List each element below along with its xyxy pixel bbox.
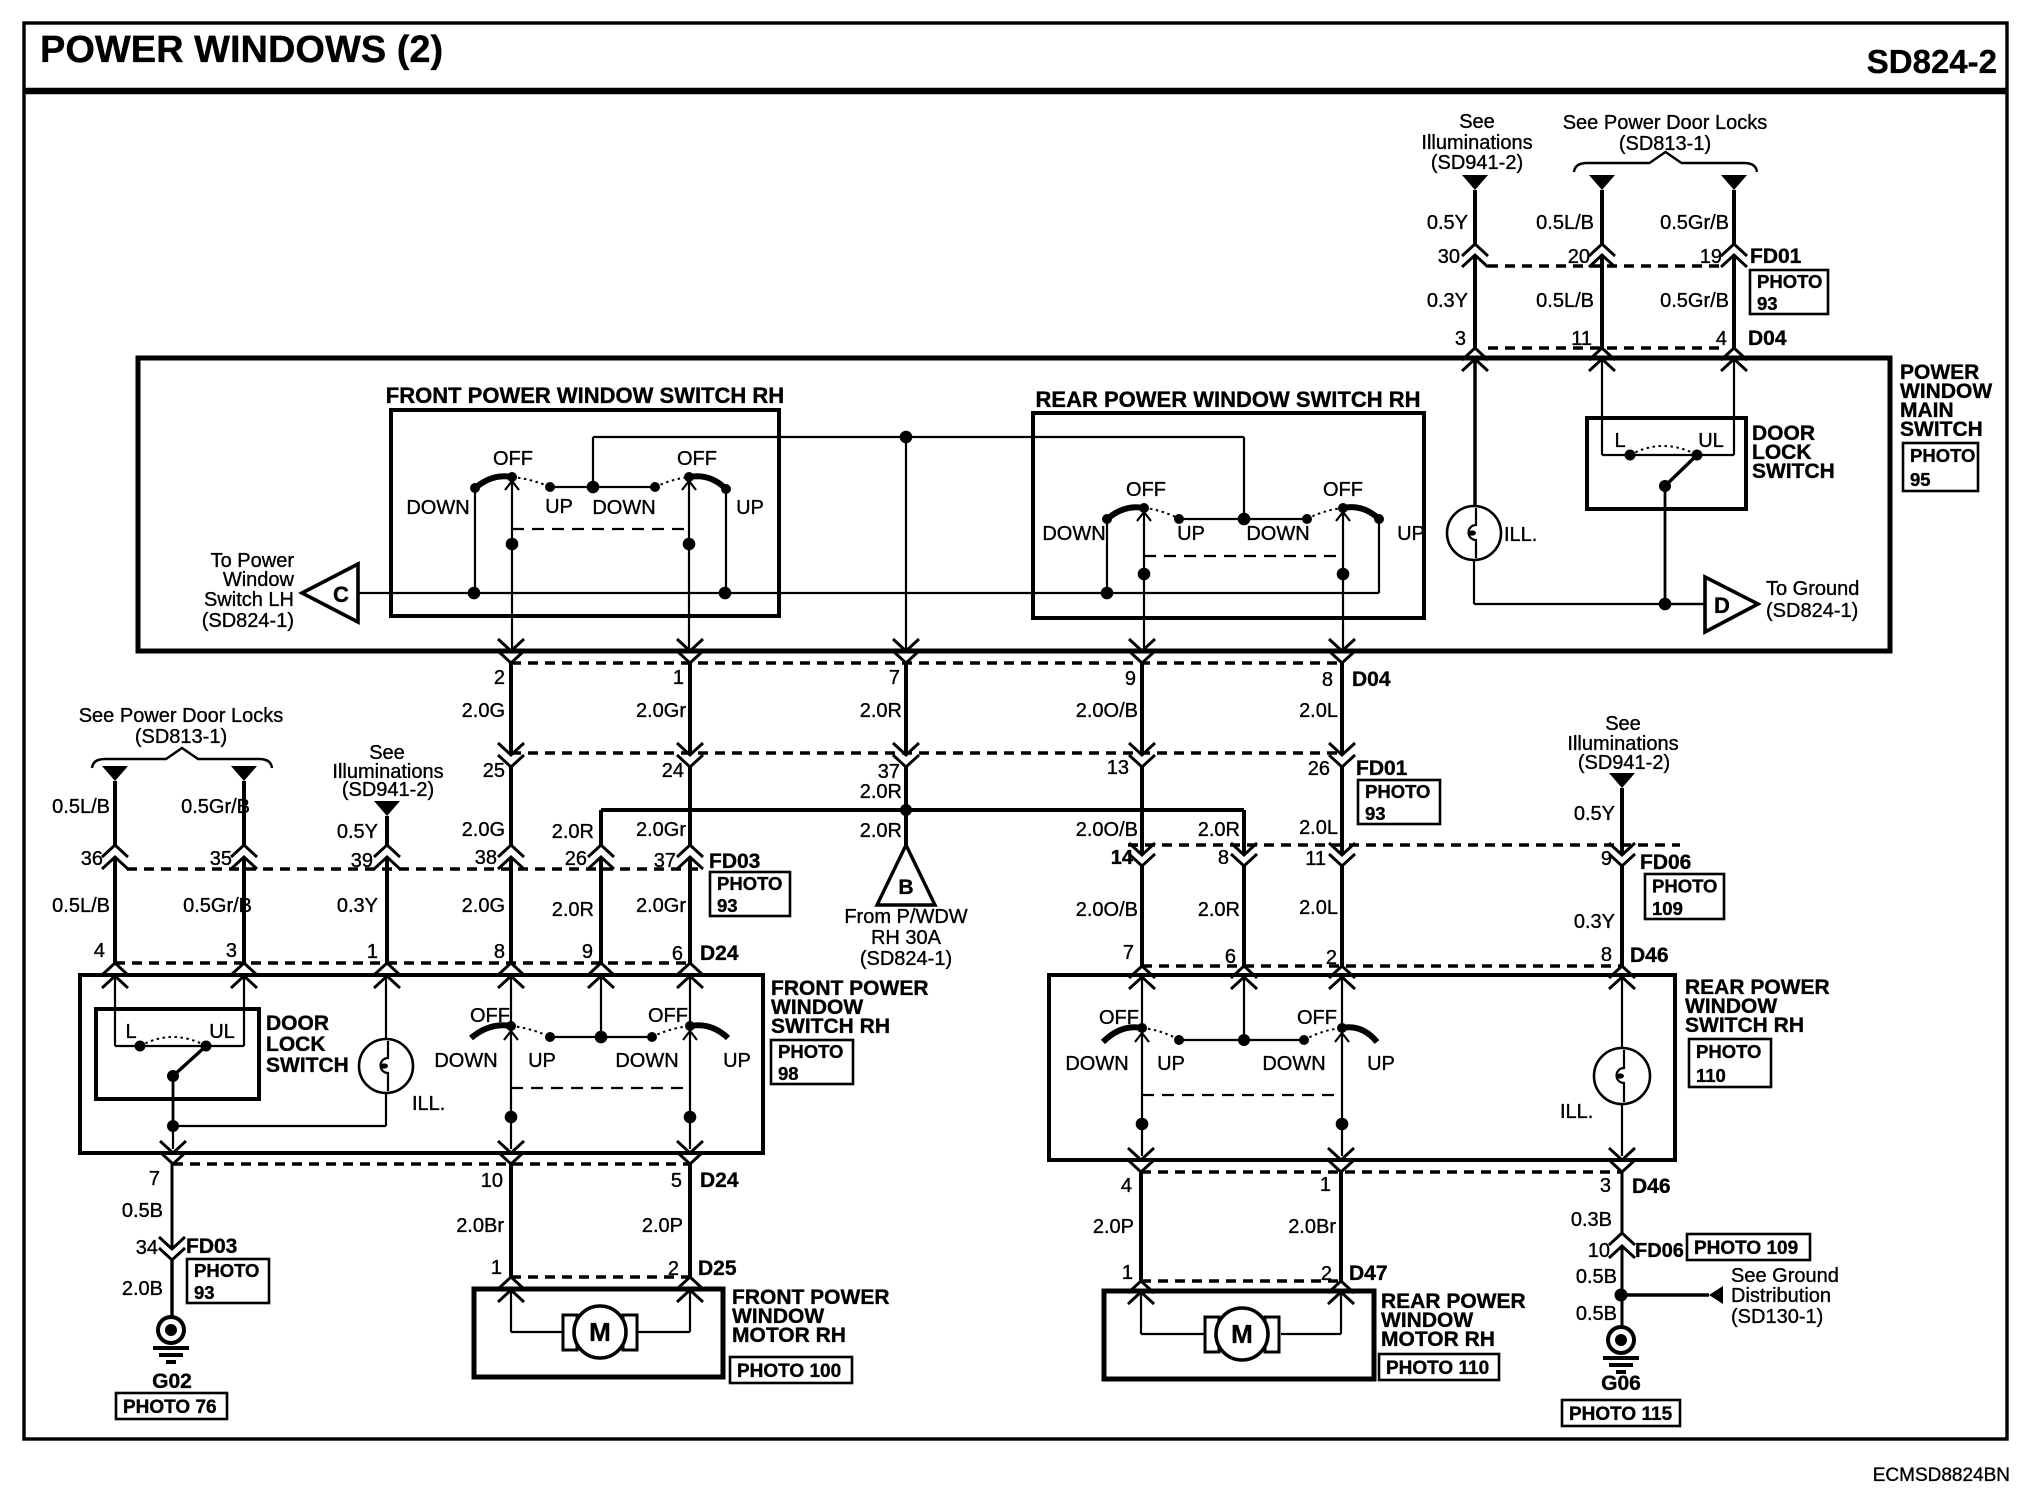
svg-text:10: 10 — [1588, 1240, 1610, 1262]
front switch UP contact 2 — [721, 484, 731, 494]
svg-text:5: 5 — [671, 1170, 682, 1192]
svg-text:D24: D24 — [700, 942, 739, 965]
connector D24 pin 10 (exit) — [481, 1141, 524, 1192]
svg-text:See: See — [1459, 111, 1495, 133]
wire 2.0O/B seg1 — [1140, 663, 1144, 755]
door lock common dot (main) — [1659, 480, 1671, 492]
svg-text:UP: UP — [1177, 523, 1205, 545]
wire 2.0G seg2 — [509, 767, 513, 845]
svg-text:11: 11 — [1305, 848, 1326, 870]
wire 2.0R seg1 — [904, 663, 908, 755]
svg-text:SWITCH: SWITCH — [1900, 418, 1983, 441]
svg-text:PHOTO: PHOTO — [1652, 875, 1717, 896]
wire 2.0L seg1 — [1340, 663, 1344, 755]
door lock UL contact (main) — [1692, 450, 1703, 461]
svg-text:DOWN: DOWN — [615, 1050, 678, 1072]
connector D46 pin 8 — [1601, 944, 1635, 989]
svg-text:SWITCH: SWITCH — [1752, 460, 1835, 483]
label FD01 (top) — [1750, 245, 1802, 268]
svg-text:L: L — [1614, 430, 1625, 452]
svg-text:(SD130-1): (SD130-1) — [1731, 1306, 1823, 1328]
connector D24 pin 5 (exit) — [671, 1141, 703, 1192]
label 0.3Y r3 — [337, 895, 378, 917]
label D47 — [1349, 1262, 1388, 1285]
svg-text:To Ground: To Ground — [1766, 578, 1859, 600]
rear-door switch OFF point 1 — [1137, 1023, 1147, 1033]
connector FD03 pin 36 — [81, 845, 128, 870]
connector FD06 pin 10 — [1588, 1233, 1635, 1262]
wire 2.0L seg2 — [1340, 767, 1344, 855]
rear-door dotted travel 2 — [1304, 1028, 1342, 1040]
rear-door UP contact 1 — [1174, 1035, 1184, 1045]
svg-text:13: 13 — [1107, 757, 1129, 779]
svg-text:(SD941-2): (SD941-2) — [342, 779, 434, 801]
box REAR POWER WINDOW MOTOR RH — [1104, 1291, 1374, 1379]
connector D04 pin 9 — [1125, 639, 1155, 690]
junction dot rdoor linkage 2 — [1336, 1118, 1349, 1131]
connector D04 pin 4 — [1716, 328, 1747, 371]
connector FD06 pin 8 — [1218, 843, 1257, 869]
door lock lever (door) — [173, 1046, 206, 1076]
wire 0.5B right lower — [1621, 1295, 1624, 1327]
svg-text:LOCK: LOCK — [266, 1033, 326, 1056]
connector FD03 pin 37 — [654, 845, 703, 872]
svg-text:D25: D25 — [698, 1257, 737, 1280]
label DOWN door1 — [434, 1050, 497, 1072]
box FRONT POWER WINDOW SWITCH RH (door) — [80, 975, 763, 1153]
label REAR POWER WINDOW SWITCH RH (main) — [1036, 387, 1421, 412]
front-door DOWN contact 2 — [647, 1032, 657, 1042]
label 0.5L/B (2) — [1536, 290, 1594, 312]
connector D47 dashed link — [1141, 1279, 1341, 1282]
svg-text:D04: D04 — [1352, 668, 1391, 691]
svg-text:14: 14 — [1111, 847, 1134, 869]
wire 0.5L/B left seg2 — [113, 857, 117, 964]
label 0.5L/B left — [52, 796, 110, 818]
wire motor lead 1 (front) — [511, 1290, 564, 1332]
svg-text:110: 110 — [1696, 1065, 1726, 1086]
label REAR POWER WINDOW SWITCH RH (door) — [1685, 976, 1830, 1037]
label DOWN rdoor2 — [1262, 1053, 1325, 1075]
svg-text:M: M — [589, 1317, 611, 1347]
off-page connector B triangle (from P/WDW) — [877, 845, 935, 905]
wire pin11 to door lock L — [1601, 359, 1603, 455]
svg-text:(SD824-1): (SD824-1) — [860, 948, 952, 970]
svg-text:93: 93 — [1757, 293, 1778, 314]
svg-text:3: 3 — [226, 940, 237, 962]
svg-text:2.0G: 2.0G — [462, 819, 505, 841]
label DOOR LOCK SWITCH (door) — [266, 1012, 349, 1077]
svg-text:ILL.: ILL. — [412, 1093, 445, 1115]
svg-text:UP: UP — [528, 1050, 556, 1072]
label OFF rdoor2 — [1297, 1007, 1337, 1029]
wire rear OFF drop pin8 — [1336, 508, 1350, 651]
svg-text:26: 26 — [565, 848, 587, 870]
svg-text:From P/WDW: From P/WDW — [844, 906, 967, 928]
label UP 2 — [736, 497, 764, 519]
wire 0.5B — [171, 1164, 174, 1249]
svg-text:REAR POWER WINDOW SWITCH RH: REAR POWER WINDOW SWITCH RH — [1036, 387, 1421, 412]
svg-text:0.3Y: 0.3Y — [1427, 290, 1468, 312]
door lock UL contact (door) — [201, 1041, 212, 1052]
svg-text:FD03: FD03 — [186, 1235, 237, 1258]
svg-text:2.0O/B: 2.0O/B — [1076, 819, 1138, 841]
wire 2.0G through (door) — [504, 976, 518, 1149]
svg-text:2.0P: 2.0P — [642, 1215, 683, 1237]
svg-text:DOWN: DOWN — [1262, 1053, 1325, 1075]
connector D46 pin 2 — [1326, 947, 1355, 989]
svg-text:0.3Y: 0.3Y — [1574, 911, 1615, 933]
box POWER WINDOW MAIN SWITCH — [138, 358, 1890, 651]
front dotted travel DOWN-OFF 2 — [655, 477, 689, 487]
connector D24 pin 8 — [494, 941, 524, 988]
svg-text:PHOTO: PHOTO — [194, 1260, 259, 1281]
label OFF door2 — [648, 1005, 688, 1027]
svg-text:UP: UP — [736, 497, 764, 519]
svg-text:2.0R: 2.0R — [552, 821, 594, 843]
connector FD01 pin 26 — [1308, 743, 1355, 780]
wire 2.0Gr seg2 — [688, 767, 692, 845]
svg-text:UP: UP — [723, 1050, 751, 1072]
note See Illuminations (SD941-2) mid — [332, 742, 443, 801]
svg-text:2: 2 — [1321, 1263, 1332, 1285]
junction dot lamp-doorlock — [167, 1120, 179, 1132]
svg-text:PHOTO: PHOTO — [1696, 1041, 1761, 1062]
label UP rear 1 — [1177, 523, 1205, 545]
rear switch lever 1 (DOWN-OFF) — [1106, 507, 1144, 520]
svg-text:4: 4 — [94, 940, 105, 962]
rear-door lever 1 — [1103, 1027, 1142, 1042]
svg-text:2.0Br: 2.0Br — [456, 1215, 504, 1237]
svg-text:See Ground: See Ground — [1731, 1265, 1839, 1287]
svg-text:2.0R: 2.0R — [1198, 819, 1240, 841]
arrow power door locks left B — [231, 766, 257, 781]
svg-text:1: 1 — [367, 941, 378, 963]
label 0.5L/B r3 — [52, 895, 110, 917]
svg-text:DOWN: DOWN — [592, 497, 655, 519]
label 2.0R branch right — [1198, 819, 1240, 841]
connector D24 pin 1 — [367, 941, 400, 988]
label 2.0R r2 (col E) — [552, 821, 594, 843]
connector FD01 pin 19 — [1700, 244, 1747, 268]
label D04 (top) — [1748, 327, 1787, 350]
note See Illuminations (SD941-2) top — [1421, 111, 1532, 174]
label D24 (top) — [700, 942, 739, 965]
front switch UP contact 1 — [545, 482, 555, 492]
wire 2.0L seg3 — [1340, 866, 1344, 966]
rear switch DOWN contact 1 — [1102, 514, 1112, 524]
label 2.0R r1 — [860, 700, 902, 722]
front switch RH-window DOWN contact — [470, 483, 480, 493]
svg-text:26: 26 — [1308, 758, 1330, 780]
wire UP contact to bus — [725, 489, 727, 593]
label FD01 (mid) — [1356, 757, 1408, 780]
svg-text:0.5Gr/B: 0.5Gr/B — [1660, 290, 1729, 312]
junction dot front-door center — [595, 1031, 608, 1044]
wire 2.0R horizontal branch — [601, 808, 1244, 812]
svg-text:2.0L: 2.0L — [1299, 897, 1338, 919]
svg-text:ECMSD8824BN: ECMSD8824BN — [1873, 1465, 2010, 1486]
wire 2.0R drop inside main box — [905, 437, 907, 651]
junction dot rear linkage 1 — [1138, 568, 1151, 581]
label ILL (front door) — [412, 1093, 445, 1115]
junction dot door linkage 2 — [684, 1111, 697, 1124]
svg-text:FD06: FD06 — [1635, 1240, 1684, 1262]
connector D46 pin 3 (exit) — [1600, 1148, 1635, 1197]
svg-text:0.5Gr/B: 0.5Gr/B — [181, 796, 250, 818]
svg-text:2.0R: 2.0R — [1198, 899, 1240, 921]
svg-text:DOWN: DOWN — [1246, 523, 1309, 545]
svg-text:2.0R: 2.0R — [552, 899, 594, 921]
box REAR POWER WINDOW SWITCH RH (main) — [1033, 413, 1424, 618]
svg-text:2.0O/B: 2.0O/B — [1076, 700, 1138, 722]
svg-text:PHOTO: PHOTO — [1757, 271, 1822, 292]
svg-text:19: 19 — [1700, 246, 1722, 268]
photo box PHOTO 110 (switch) — [1689, 1039, 1771, 1087]
wire OFF drop pin1 — [682, 477, 696, 651]
front-door switch OFF point 2 — [685, 1021, 695, 1031]
junction dot linkage 2 — [683, 538, 696, 551]
svg-text:Switch LH: Switch LH — [204, 589, 294, 611]
wire 0.3B — [1621, 1172, 1624, 1233]
motor M front — [563, 1306, 637, 1358]
junction dot rear center — [1238, 513, 1251, 526]
connector D24 pin 9 — [582, 941, 614, 988]
wire 2.0O/B seg3 — [1140, 866, 1144, 966]
svg-text:PHOTO: PHOTO — [1910, 445, 1975, 466]
svg-text:8: 8 — [1601, 944, 1612, 966]
connector D46 pin 7 — [1123, 942, 1155, 989]
label OFF rdoor1 — [1099, 1007, 1139, 1029]
motor M rear — [1205, 1308, 1279, 1360]
svg-text:39: 39 — [351, 850, 373, 872]
supply drop rear — [1243, 437, 1245, 519]
svg-text:0.5B: 0.5B — [122, 1200, 163, 1222]
wire 2.0R stub to B — [904, 810, 908, 845]
box DOOR LOCK SWITCH (door) — [96, 1009, 259, 1099]
wire 0.5B right upper — [1621, 1246, 1624, 1295]
front switch OFF point 2 — [684, 472, 694, 482]
label G06 — [1601, 1372, 1641, 1395]
svg-text:M: M — [1231, 1319, 1253, 1349]
junction dot front DOWN on bus — [468, 587, 481, 600]
label D46 (top) — [1630, 944, 1669, 967]
door lock L contact (door) — [135, 1041, 146, 1052]
svg-text:2: 2 — [668, 1258, 679, 1280]
wire 2.0R center drop (door) — [600, 976, 602, 1037]
connector FD01 pin 24 — [662, 743, 703, 782]
note See Ground Distribution (SD130-1) — [1731, 1265, 1839, 1328]
connector D47 pin 1 — [1122, 1262, 1154, 1304]
connector D24 pin 7 (exit) — [149, 1141, 186, 1190]
label UL (door) — [209, 1021, 235, 1043]
svg-text:0.5B: 0.5B — [1576, 1266, 1617, 1288]
arrow to ground distribution — [1709, 1286, 1723, 1304]
label UP door1 — [528, 1050, 556, 1072]
label 2.0P — [642, 1215, 683, 1237]
svg-text:POWER WINDOWS (2): POWER WINDOWS (2) — [40, 29, 443, 71]
label 2.0R colE r3 — [552, 899, 594, 921]
document code ECMSD8824BN — [1873, 1465, 2010, 1486]
svg-text:24: 24 — [662, 760, 684, 782]
wire OFF drop pin2 — [505, 477, 519, 651]
connector D24 pin 6 — [672, 943, 703, 988]
junction dot doorlock-ground — [1659, 598, 1672, 611]
connector D46 pin 4 (exit) — [1121, 1148, 1154, 1197]
wire rear OFF drop pin9 — [1137, 508, 1151, 651]
rear switch OFF point 1 — [1139, 503, 1149, 513]
svg-text:1: 1 — [491, 1257, 502, 1279]
connector D46 dashed link (bottom) — [1141, 1170, 1622, 1173]
label 2.0Gr r2 — [636, 819, 686, 841]
door lock dotted travel (door) — [140, 1037, 206, 1046]
wire 0.5L/B (top) — [1600, 190, 1604, 244]
connector FD03 pin 39 — [351, 845, 400, 872]
junction dot ground distribution — [1615, 1289, 1628, 1302]
svg-text:D46: D46 — [1632, 1175, 1671, 1198]
label FRONT POWER WINDOW SWITCH RH (main) — [386, 383, 784, 408]
connector D47 pin 2 — [1321, 1263, 1354, 1304]
wire 2.0Gr seg3 — [688, 857, 692, 964]
label FRONT POWER WINDOW SWITCH RH (door) — [771, 977, 929, 1038]
junction dot rear DOWN on bus — [1101, 587, 1114, 600]
svg-text:0.5B: 0.5B — [1576, 1303, 1617, 1325]
svg-text:2.0R: 2.0R — [860, 820, 902, 842]
wire 0.5Y mid — [385, 816, 389, 845]
connector D04 dashed link (bottom) — [511, 661, 1342, 664]
front-door linkage dashed — [511, 1087, 684, 1089]
wire rear UP to bus end — [1378, 519, 1380, 593]
rear switch UP contact 2 — [1374, 514, 1384, 524]
svg-text:PHOTO 109: PHOTO 109 — [1694, 1238, 1798, 1259]
wire 2.0P — [688, 1164, 692, 1277]
svg-text:2.0G: 2.0G — [462, 700, 505, 722]
wire doorlock L drop — [114, 976, 116, 1046]
rear switch OFF point 2 — [1338, 503, 1348, 513]
label FD06 — [1640, 851, 1691, 874]
svg-text:9: 9 — [1125, 668, 1136, 690]
wire 2.0R colE seg3 — [599, 857, 603, 964]
svg-text:4: 4 — [1716, 328, 1727, 350]
svg-text:PHOTO 100: PHOTO 100 — [737, 1361, 841, 1382]
label FD06 (pin10) — [1635, 1240, 1684, 1262]
svg-text:OFF: OFF — [1099, 1007, 1139, 1029]
wire 2.0O/B seg2 — [1140, 767, 1144, 855]
connector FD03 pin 35 — [210, 845, 257, 870]
svg-text:0.5Y: 0.5Y — [1427, 212, 1468, 234]
svg-text:1: 1 — [1320, 1174, 1331, 1196]
wire rear DOWN to bus — [1106, 519, 1108, 593]
connector FD03 pin 26 — [565, 845, 614, 870]
label L (door) — [125, 1021, 136, 1043]
photo box PHOTO 93 (FD03) — [710, 872, 790, 916]
svg-text:0.3B: 0.3B — [1571, 1209, 1612, 1231]
svg-text:2.0Gr: 2.0Gr — [636, 895, 686, 917]
svg-text:DOWN: DOWN — [1042, 523, 1105, 545]
label 0.5Gr/B r3 — [183, 895, 252, 917]
front switch OFF point 1 — [507, 472, 517, 482]
connector D04 pin 8 — [1322, 639, 1355, 691]
label D24 (bottom) — [700, 1169, 739, 1192]
label 2.0G r3 — [462, 895, 505, 917]
label 0.5B — [122, 1200, 163, 1222]
svg-text:(SD941-2): (SD941-2) — [1431, 152, 1523, 174]
svg-text:1: 1 — [673, 667, 684, 689]
note See Power Door Locks (SD813-1) left — [79, 705, 284, 748]
svg-text:20: 20 — [1568, 246, 1590, 268]
svg-text:MOTOR RH: MOTOR RH — [1381, 1328, 1495, 1351]
rear switch DOWN contact 2 — [1302, 514, 1312, 524]
photo box PHOTO 115 — [1562, 1400, 1680, 1426]
label L (main) — [1614, 430, 1625, 452]
rear-door dotted travel 1 — [1142, 1028, 1179, 1040]
label 2.0O/B r1 — [1076, 700, 1138, 722]
connector D04 pin 7 — [889, 639, 919, 689]
label DOWN rear 2 — [1246, 523, 1309, 545]
label 2.0O/B r3 — [1076, 899, 1138, 921]
front mech linkage dashed — [512, 528, 689, 530]
wire 2.0L through (door) — [1335, 977, 1349, 1156]
wire 2.0Br — [509, 1164, 513, 1277]
photo box PHOTO 93 (FD01 top) — [1750, 270, 1828, 314]
svg-text:2.0R: 2.0R — [860, 781, 902, 803]
svg-text:UP: UP — [1397, 523, 1425, 545]
label 2.0O/B r2 — [1076, 819, 1138, 841]
svg-text:0.5L/B: 0.5L/B — [52, 895, 110, 917]
connector D25 pin 1 — [491, 1257, 524, 1302]
note See Illuminations (SD941-2) right — [1567, 713, 1678, 774]
label 2.0P right — [1093, 1216, 1134, 1238]
svg-text:2.0L: 2.0L — [1299, 700, 1338, 722]
svg-text:0.3Y: 0.3Y — [337, 895, 378, 917]
svg-text:98: 98 — [778, 1063, 799, 1084]
svg-text:93: 93 — [1365, 803, 1386, 824]
svg-text:2.0R: 2.0R — [860, 700, 902, 722]
bus wire to C — [358, 592, 1379, 594]
junction dot rdoor linkage 1 — [1136, 1118, 1149, 1131]
arrow from Illuminations mid — [374, 801, 400, 816]
svg-text:PHOTO: PHOTO — [778, 1041, 843, 1062]
svg-text:FD01: FD01 — [1750, 245, 1802, 268]
label 2.0R colI r3 — [1198, 899, 1240, 921]
connector D24 dashed link (top) — [115, 961, 690, 964]
connector D46 dashed link (top) — [1142, 964, 1622, 967]
wire to D triangle — [1665, 603, 1705, 605]
svg-text:DOOR: DOOR — [266, 1012, 329, 1035]
svg-text:UP: UP — [545, 496, 573, 518]
wire door lock common (door) — [172, 1076, 175, 1126]
wire 0.5Y right — [1620, 788, 1624, 855]
svg-text:4: 4 — [1121, 1175, 1132, 1197]
svg-text:RH 30A: RH 30A — [871, 927, 942, 949]
connector FD06 pin 14 — [1111, 843, 1155, 869]
note To Power Window Switch LH (SD824-1) — [202, 550, 295, 632]
svg-text:PHOTO: PHOTO — [717, 873, 782, 894]
svg-text:PHOTO 76: PHOTO 76 — [123, 1397, 217, 1418]
connector FD03 dashed link — [127, 867, 700, 870]
wire motor lead 2 (front) — [638, 1290, 690, 1332]
label D25 — [698, 1257, 737, 1280]
rear-door lever 2 — [1342, 1027, 1377, 1042]
svg-text:36: 36 — [81, 848, 103, 870]
svg-text:10: 10 — [481, 1170, 503, 1192]
rear-door switch OFF point 2 — [1337, 1023, 1347, 1033]
svg-text:SWITCH: SWITCH — [266, 1054, 349, 1077]
svg-text:ILL.: ILL. — [1504, 524, 1537, 546]
label DOWN rear 1 — [1042, 523, 1105, 545]
label 2.0G r1 — [462, 700, 505, 722]
svg-text:FRONT POWER WINDOW SWITCH RH: FRONT POWER WINDOW SWITCH RH — [386, 383, 784, 408]
